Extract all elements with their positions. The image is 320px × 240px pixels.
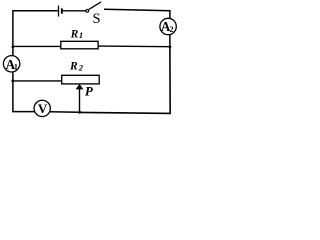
slider arrow P <box>79 89 81 113</box>
resistor R2 (rheostat) <box>62 75 99 84</box>
wire R2 row left <box>13 80 62 82</box>
battery long plate <box>58 6 60 17</box>
wire voltmeter to bottom-left corner <box>13 72 35 112</box>
node junction slider bottom <box>78 111 81 114</box>
svg-text:2: 2 <box>170 25 174 34</box>
svg-text:R: R <box>69 61 78 73</box>
svg-text:V: V <box>38 101 48 116</box>
wire switch to top-right corner <box>104 9 170 18</box>
node junction left of R2 <box>11 80 14 83</box>
wire top-left <box>13 11 58 56</box>
wire battery to switch <box>63 10 86 12</box>
svg-text:S: S <box>93 11 101 27</box>
resistor R1 <box>61 41 98 49</box>
wire A2 to junction <box>169 35 171 47</box>
wire bottom to voltmeter <box>50 111 80 113</box>
switch pivot <box>86 9 89 12</box>
svg-text:1: 1 <box>14 63 18 72</box>
wire R1 row left <box>13 45 61 47</box>
svg-text:R: R <box>70 28 79 40</box>
svg-text:P: P <box>85 84 94 99</box>
node junction right of R1 <box>169 45 172 48</box>
voltmeter V <box>34 100 50 116</box>
wire right side down <box>80 47 170 114</box>
switch blade <box>89 2 101 9</box>
battery short plate <box>61 8 63 13</box>
ammeter A2 <box>160 18 176 34</box>
wire R1 row right <box>98 45 170 48</box>
svg-text:1: 1 <box>79 30 83 40</box>
svg-text:2: 2 <box>78 62 84 72</box>
ammeter A1 <box>3 56 19 72</box>
node junction left of R1 <box>12 45 15 48</box>
